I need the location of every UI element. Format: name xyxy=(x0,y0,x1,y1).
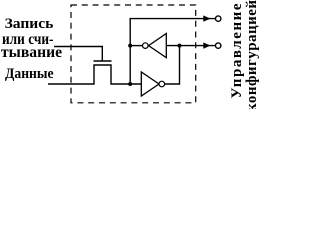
svg-text:тывание: тывание xyxy=(1,44,62,61)
svg-text:Данные: Данные xyxy=(5,66,54,82)
svg-text:Управление: Управление xyxy=(229,3,245,98)
svg-text:конфигурацией: конфигурацией xyxy=(244,0,260,109)
svg-text:Запись: Запись xyxy=(5,16,54,32)
